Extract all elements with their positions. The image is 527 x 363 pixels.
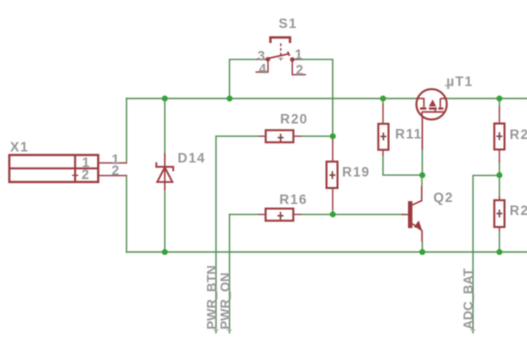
- svg-text:2: 2: [82, 167, 91, 182]
- svg-text:2: 2: [296, 63, 305, 78]
- svg-text:1: 1: [295, 47, 304, 62]
- svg-text:D14: D14: [178, 151, 206, 166]
- svg-text:R11: R11: [395, 127, 422, 142]
- svg-text:X1: X1: [10, 140, 29, 155]
- svg-text:PWR_ON: PWR_ON: [217, 272, 232, 329]
- svg-text:R20: R20: [280, 111, 308, 126]
- svg-text:4: 4: [259, 62, 268, 77]
- svg-text:Q2: Q2: [433, 190, 453, 205]
- svg-text:R16: R16: [279, 192, 307, 207]
- svg-text:S1: S1: [279, 16, 298, 31]
- svg-text:2: 2: [112, 163, 121, 178]
- svg-text:ADC_BAT: ADC_BAT: [460, 268, 475, 329]
- svg-text:R21: R21: [510, 203, 527, 218]
- svg-text:µT1: µT1: [446, 74, 473, 89]
- svg-text:R19: R19: [342, 165, 370, 180]
- svg-text:R21: R21: [510, 127, 527, 142]
